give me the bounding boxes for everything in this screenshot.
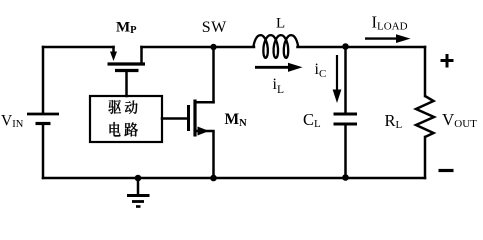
svg-text:MN: MN [225,111,248,129]
svg-text:VIN: VIN [1,113,24,131]
svg-text:MP: MP [116,20,137,37]
svg-text:RL: RL [385,111,403,131]
svg-text:ILOAD: ILOAD [372,12,408,32]
svg-text:iC: iC [315,61,327,80]
svg-text:VOUT: VOUT [442,110,477,130]
svg-text:SW: SW [202,19,227,36]
svg-text:CL: CL [303,110,321,130]
svg-text:iL: iL [273,76,284,96]
svg-text:L: L [276,16,285,32]
